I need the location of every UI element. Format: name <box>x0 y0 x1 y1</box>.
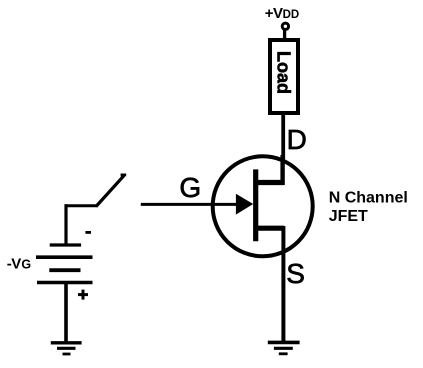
battery VG plate 3 (short) <box>49 268 80 272</box>
switch blade (open) <box>96 176 124 207</box>
switch blade tip <box>121 173 127 176</box>
switch pole wire (horizontal) <box>65 204 97 207</box>
battery VG plate 4 (long, positive) <box>37 281 93 285</box>
source lead (horizontal) <box>256 226 284 231</box>
svg-text:-VG: -VG <box>7 255 31 272</box>
svg-text:N Channel: N Channel <box>329 189 408 206</box>
wire terminal to load <box>283 30 286 42</box>
ground (right, source) <box>268 342 300 353</box>
gate arrow head <box>236 194 253 215</box>
wire gate <box>141 203 250 206</box>
svg-text:G: G <box>179 172 201 203</box>
wire source to ground <box>281 226 285 344</box>
svg-text:JFET: JFET <box>329 208 368 225</box>
label - (battery negative) <box>85 231 91 234</box>
svg-text:Load: Load <box>274 51 294 94</box>
resistor Load (box) <box>270 40 298 113</box>
svg-text:S: S <box>286 258 305 289</box>
wire battery to ground <box>64 283 68 343</box>
drain lead (vertical inside circle) <box>280 155 284 185</box>
battery VG plate 1 (short, negative) <box>50 243 81 246</box>
svg-text:D: D <box>287 124 307 155</box>
JFET channel bar <box>253 169 258 241</box>
ground (left, battery) <box>51 343 82 354</box>
battery VG plate 2 (long) <box>36 255 93 259</box>
drain lead (horizontal) <box>256 180 284 185</box>
wire switch to battery <box>64 204 67 244</box>
wire load to drain <box>281 113 285 185</box>
label + (battery positive) <box>78 293 88 296</box>
transistor Q1 JFET body circle <box>213 156 313 256</box>
terminal node at +VDD <box>282 23 288 29</box>
